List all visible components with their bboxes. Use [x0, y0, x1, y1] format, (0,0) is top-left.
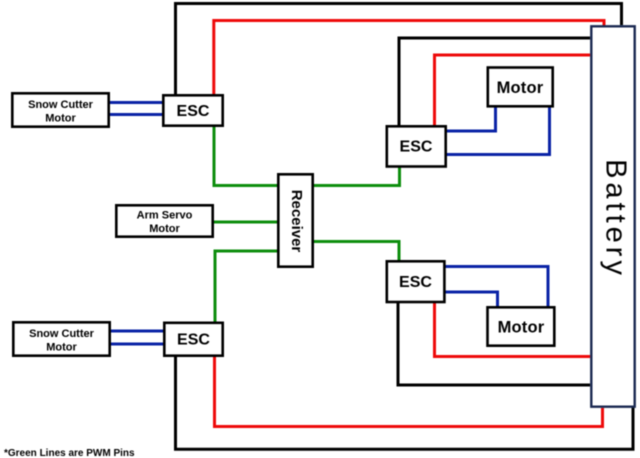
svg-text:Receiver: Receiver — [288, 190, 305, 253]
wire red: ESC-TL top to Battery top — [214, 21, 604, 96]
svg-text:Motor: Motor — [497, 79, 544, 97]
svg-text:Battery: Battery — [600, 159, 632, 279]
wire blue: ESC-BR to Motor bottom (lead 2) — [445, 292, 498, 306]
svg-text:Arm Servo: Arm Servo — [137, 210, 193, 222]
box Snow Cutter Motor (bottom) — [13, 322, 109, 355]
box ESC bottom-left — [164, 323, 222, 356]
svg-text:Motor: Motor — [45, 113, 76, 125]
box ESC top-left — [163, 95, 222, 125]
box Receiver — [278, 174, 312, 266]
wire red: Battery left to ESC-TR top — [435, 55, 591, 126]
wire blue pair: Snow Cutter Motor bottom to ESC-BL — [110, 331, 163, 344]
wire green PWM: ESC-TL to Receiver — [214, 127, 277, 186]
svg-text:Motor: Motor — [46, 342, 77, 354]
svg-text:ESC: ESC — [177, 103, 210, 120]
svg-text:*Green Lines are PWM Pins: *Green Lines are PWM Pins — [4, 448, 135, 458]
svg-text:ESC: ESC — [177, 332, 210, 349]
wire black: Battery left to ESC-TR top — [399, 38, 590, 126]
svg-text:ESC: ESC — [399, 274, 432, 291]
svg-text:ESC: ESC — [400, 139, 433, 156]
wire blue: ESC-BR to Motor bottom (lead 1) — [445, 267, 548, 307]
wire black: ESC-TL top to Battery top (+) — [176, 4, 622, 96]
wire blue: ESC-TR to Motor top (lead 1) — [446, 107, 496, 131]
wire blue: ESC-TR to Motor top (lead 2) — [446, 107, 550, 155]
wire green PWM: ESC-BL to Receiver — [215, 251, 277, 322]
wire red: ESC-BL bottom to Battery bottom — [215, 355, 603, 427]
wire blue pair: Snow Cutter Motor top to ESC-TL — [110, 103, 162, 115]
svg-text:Motor: Motor — [149, 223, 180, 235]
wire green PWM: Receiver to ESC-BR — [314, 242, 399, 262]
box ESC top-right — [387, 126, 446, 166]
box Battery — [591, 26, 634, 406]
svg-text:Snow Cutter: Snow Cutter — [29, 328, 94, 340]
wire black: ESC-BL bottom to Battery bottom — [176, 355, 634, 449]
box Arm Servo Motor — [116, 205, 212, 236]
svg-text:Motor: Motor — [498, 319, 545, 337]
wire green PWM: Arm Servo Motor to Receiver — [214, 221, 277, 224]
box Motor (top-right) — [488, 68, 553, 107]
box ESC bottom-right — [387, 261, 445, 302]
wire red: ESC-BR bottom to Battery left — [435, 302, 591, 357]
wire green PWM: Receiver to ESC-TR — [314, 167, 400, 186]
svg-text:Snow Cutter: Snow Cutter — [28, 99, 93, 111]
box Motor (bottom-right) — [488, 307, 555, 345]
box Snow Cutter Motor (top) — [12, 93, 108, 126]
wire black: ESC-BR bottom to Battery left — [398, 302, 590, 385]
